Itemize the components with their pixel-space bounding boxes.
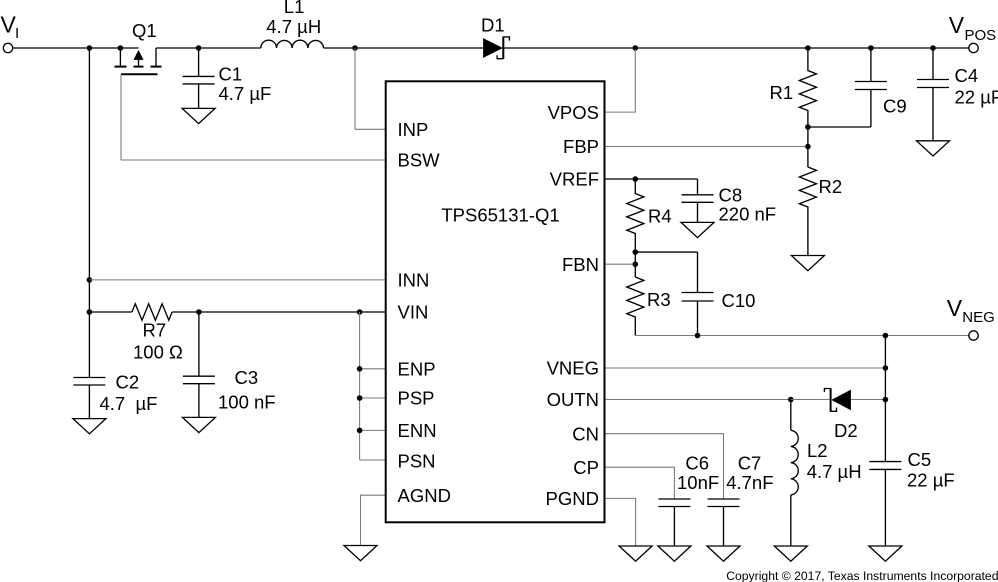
svg-text:R2: R2 [819, 176, 843, 197]
wire L1 to switch node [324, 47, 356, 49]
svg-text:C8: C8 [719, 185, 743, 206]
wire ENN stub [360, 429, 386, 431]
svg-text:BSW: BSW [398, 150, 441, 171]
wire PSN stub [360, 459, 386, 461]
node C4 top junction [930, 45, 936, 51]
node PSP junction [357, 395, 363, 401]
ground below L2 [774, 546, 807, 561]
svg-text:VPOS: VPOS [548, 102, 599, 123]
svg-text:C10: C10 [722, 290, 756, 311]
ground below C5 [869, 546, 902, 561]
svg-text:CN: CN [572, 423, 599, 444]
resistor R1 [799, 48, 816, 127]
wire INP [355, 128, 386, 130]
svg-text:C7: C7 [738, 452, 762, 473]
wire VREF to C8 [697, 179, 699, 195]
svg-text:C5: C5 [908, 449, 932, 470]
svg-text:4.7nF: 4.7nF [726, 472, 773, 493]
wire switch node down to INP [354, 48, 356, 129]
node FBN junction [633, 261, 639, 267]
node D2 anode junction [883, 397, 889, 403]
capacitor C10 [682, 293, 714, 336]
svg-text:C6: C6 [685, 452, 709, 473]
svg-text:NEG: NEG [962, 309, 995, 326]
wire OUTN to D2 cathode [791, 399, 831, 401]
svg-text:C9: C9 [883, 96, 907, 117]
svg-text:4.7 µF: 4.7 µF [100, 393, 158, 414]
node VPOS pin junction [633, 45, 639, 51]
resistor R3 [627, 277, 644, 336]
node INN junction [87, 277, 93, 283]
wire CN [605, 434, 724, 499]
svg-text:CP: CP [573, 457, 599, 478]
svg-text:100 Ω: 100 Ω [133, 342, 183, 363]
capacitor C3 [183, 376, 215, 417]
capacitor C2 [73, 378, 105, 419]
svg-text:D1: D1 [481, 15, 505, 36]
wire L2 bottom lead [790, 495, 792, 546]
node A junction [87, 45, 93, 51]
capacitor C9 [855, 48, 887, 127]
svg-text:C4: C4 [955, 65, 979, 86]
svg-text:C1: C1 [219, 64, 243, 85]
resistor R4 [627, 179, 644, 252]
ground below C7 [707, 546, 740, 561]
svg-text:R3: R3 [647, 289, 671, 310]
wire Q1 gate down [120, 74, 122, 160]
svg-text:AGND: AGND [398, 485, 451, 506]
wire Q1 drain to C1 node [156, 47, 199, 49]
wire CP [605, 467, 675, 499]
transistor Q1 [115, 45, 162, 74]
wire C10 top lead [697, 252, 699, 292]
svg-text:PGND: PGND [546, 488, 599, 509]
ground below C2 [73, 419, 106, 434]
capacitor C5 [869, 462, 901, 546]
svg-text:VREF: VREF [550, 169, 599, 190]
resistor R2 [799, 167, 816, 256]
wire VIN to R7 [89, 311, 131, 313]
svg-text:Copyright © 2017, Texas Instru: Copyright © 2017, Texas Instruments Inco… [726, 569, 998, 582]
svg-text:R7: R7 [143, 320, 167, 341]
node ENP junction [357, 366, 363, 372]
wire PGND [605, 498, 636, 546]
node C10 bottom junction [695, 333, 701, 339]
svg-text:4.7 µH: 4.7 µH [807, 461, 862, 482]
svg-text:R4: R4 [648, 206, 672, 227]
terminal VPOS [969, 43, 978, 52]
node FBP junction [805, 144, 811, 150]
op-amp U1 TPS65131-Q1 box [386, 81, 605, 522]
ground below C8 [681, 222, 714, 237]
wire L2 top lead [790, 400, 792, 431]
ground below C6 [658, 546, 691, 561]
wire VREF [605, 178, 698, 180]
svg-text:ENN: ENN [398, 420, 437, 441]
wire FBN [605, 263, 636, 265]
svg-text:C3: C3 [235, 367, 259, 388]
wire R1 bottom to R2 top [807, 127, 809, 167]
ground below C1 [182, 108, 215, 123]
diode D1 [483, 37, 509, 59]
svg-text:220 nF: 220 nF [719, 204, 777, 225]
svg-text:POS: POS [965, 27, 997, 44]
svg-text:Q1: Q1 [132, 20, 157, 41]
svg-text:VIN: VIN [398, 302, 429, 323]
ground below C3 [182, 417, 215, 432]
svg-text:FBN: FBN [562, 254, 599, 275]
svg-text:10nF: 10nF [677, 472, 719, 493]
wire D1 cathode to VPOS rail [503, 47, 969, 49]
svg-text:L1: L1 [284, 0, 305, 17]
wire C3 top lead [198, 312, 200, 376]
wire C1 node to L1 [199, 47, 261, 49]
svg-text:V: V [947, 295, 963, 321]
wire R1 bottom to C9 bottom [808, 126, 871, 128]
wire D2 anode to C5 node [851, 399, 886, 401]
svg-text:V: V [949, 12, 965, 38]
wire C2 top lead [88, 312, 90, 378]
node R1 bottom junction [805, 124, 811, 130]
node VNEG rail junction [883, 333, 889, 339]
svg-text:PSP: PSP [398, 388, 435, 409]
wire VPOS pin [605, 49, 636, 112]
wire ENP stub [360, 368, 386, 370]
svg-text:22 µF: 22 µF [955, 87, 998, 108]
svg-text:4.7 µH: 4.7 µH [266, 16, 321, 37]
inductor L1 [261, 40, 324, 48]
wire VNEG vertical [884, 336, 886, 462]
node R1 top junction [805, 45, 811, 51]
terminal VNEG [969, 331, 978, 340]
svg-text:4.7 µF: 4.7 µF [219, 83, 272, 104]
node ENN junction [357, 428, 363, 434]
wire R4 bottom to R3 top [634, 252, 636, 277]
wire switch node to D1 anode [355, 47, 483, 49]
ground below C4 [917, 141, 950, 156]
switch node junction [352, 45, 358, 51]
node C9 top junction [868, 45, 874, 51]
svg-text:ENP: ENP [398, 359, 436, 380]
node EN vertical top junction [357, 309, 363, 315]
svg-text:PSN: PSN [398, 450, 436, 471]
svg-text:VNEG: VNEG [547, 358, 599, 379]
node R4 bottom junction [633, 249, 639, 255]
capacitor C8 [682, 195, 714, 223]
svg-text:TPS65131-Q1: TPS65131-Q1 [441, 205, 559, 226]
resistor R7 [132, 304, 172, 320]
wire node A down to INN/VIN [88, 48, 90, 312]
wire node A to Q1 source [89, 47, 120, 49]
node VREF junction [633, 176, 639, 182]
ground below PGND [619, 546, 652, 561]
capacitor C6 [658, 499, 690, 546]
svg-text:OUTN: OUTN [547, 389, 599, 410]
wire BSW [121, 159, 386, 161]
wire R4 bottom to C10 top [635, 251, 697, 253]
ground below AGND [344, 546, 377, 561]
node OUTN junction [788, 397, 794, 403]
wire VI to node A [13, 47, 90, 49]
svg-text:FBP: FBP [563, 136, 599, 157]
wire INN [89, 279, 385, 281]
svg-text:22 µF: 22 µF [907, 470, 955, 491]
capacitor C7 [708, 499, 740, 546]
diode D2 [824, 388, 851, 411]
ground below R2 [791, 256, 824, 271]
wire VNEG rail [635, 335, 969, 337]
node C1 top junction [196, 45, 202, 51]
inductor L2 [791, 430, 798, 495]
svg-text:C2: C2 [116, 372, 140, 393]
wire EN vertical [359, 312, 361, 460]
wire VNEG pin [605, 367, 886, 369]
svg-text:INP: INP [398, 119, 429, 140]
svg-text:D2: D2 [834, 420, 858, 441]
wire PSP stub [360, 397, 386, 399]
svg-text:100 nF: 100 nF [218, 392, 276, 413]
svg-text:L2: L2 [807, 440, 828, 461]
wire OUTN pin [605, 399, 791, 401]
wire R7 to VIN pin [172, 311, 386, 313]
wire AGND [361, 495, 386, 545]
node VNEG pin junction [883, 365, 889, 371]
svg-text:I: I [15, 25, 19, 42]
wire FBP [605, 146, 808, 148]
terminal VI [3, 43, 12, 52]
capacitor C4 [917, 48, 949, 141]
node VIN left junction [87, 309, 93, 315]
capacitor C1 [183, 48, 215, 108]
svg-text:INN: INN [398, 270, 430, 291]
node C3 top junction [196, 309, 202, 315]
svg-text:R1: R1 [770, 82, 794, 103]
